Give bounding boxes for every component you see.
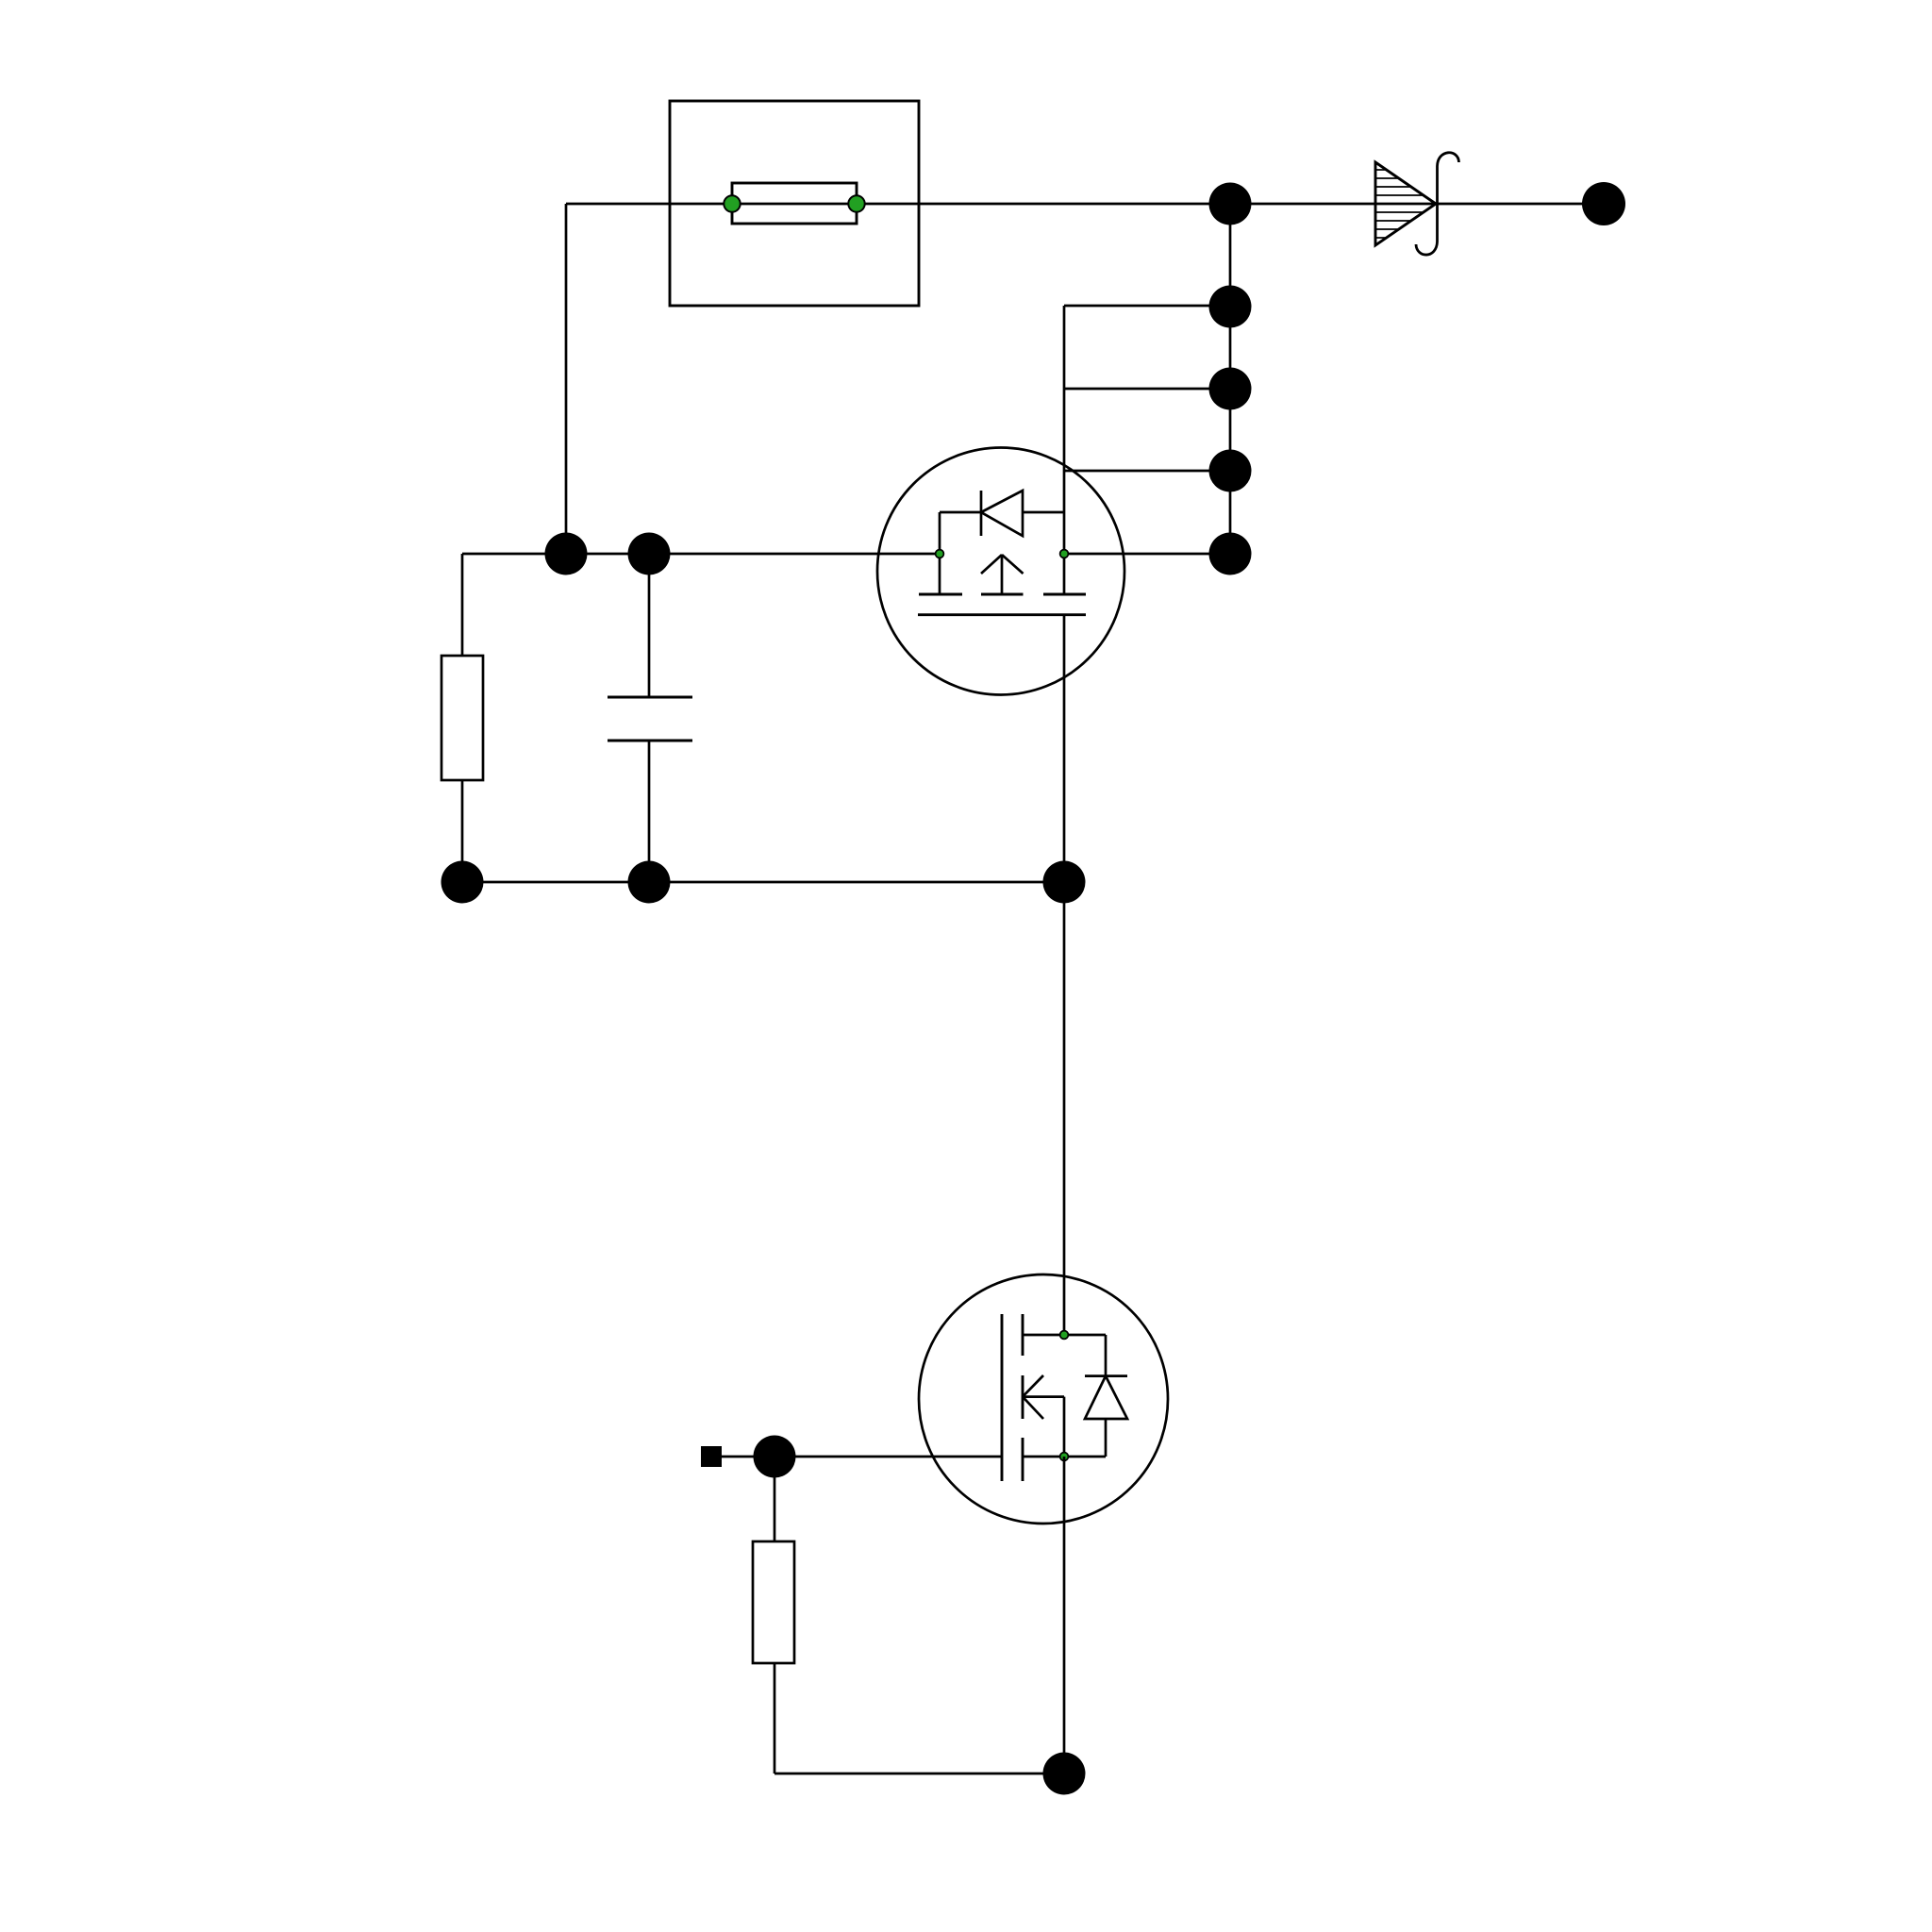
Q2 drain internal horizontal xyxy=(1023,1334,1106,1337)
Q1 channel segment 1 xyxy=(919,593,962,596)
transistor Q1 (P-MOSFET) xyxy=(877,448,1124,695)
fuse F1 pin 2 xyxy=(848,195,864,211)
Q1 gate line xyxy=(918,613,1086,616)
node A1 xyxy=(1209,286,1252,328)
wire mid row horizontal xyxy=(462,553,940,556)
wire Q2 source down to bottom node xyxy=(1063,1457,1066,1774)
Q1 body diode cathode bar xyxy=(980,491,983,536)
wire top horizontal from left corner through fuse to right terminal xyxy=(566,203,1604,206)
wire stub row 3 xyxy=(1064,470,1230,473)
Q1 body diode anode lead xyxy=(1023,511,1064,514)
wire stub row 1 xyxy=(1064,305,1230,308)
wire resistor R2 bottom lead xyxy=(774,1663,776,1774)
Q2 channel segment 1 xyxy=(1022,1314,1024,1356)
fuse F1 pin 1 xyxy=(724,195,740,211)
Q2 body diode cathode lead xyxy=(1105,1335,1108,1376)
enclosure box around fuse xyxy=(670,101,919,306)
Q1 envelope circle xyxy=(877,448,1124,695)
Q2 channel segment 2 xyxy=(1022,1375,1024,1419)
Q2 gate bar xyxy=(1001,1314,1004,1481)
Q1 channel segment 3 xyxy=(1043,593,1086,596)
surge arrester integral-shaped curve xyxy=(1416,153,1459,255)
node bottom xyxy=(1043,1753,1086,1795)
wire resistor R1 bottom lead xyxy=(461,780,464,882)
Q2 envelope circle xyxy=(919,1274,1168,1524)
wire lower-mid row horizontal xyxy=(462,881,1064,884)
capacitor C1 xyxy=(608,697,692,741)
wire left vertical from top corner down to mid row xyxy=(565,204,568,554)
Q1 substrate arrow xyxy=(981,555,1024,594)
Q1 body diode cathode lead xyxy=(940,511,981,514)
Q1 body diode triangle xyxy=(981,491,1023,536)
resistor R1 xyxy=(441,656,483,780)
node B1 xyxy=(441,861,484,904)
junction node at top (fuse output) xyxy=(1209,183,1252,225)
surge arrester / TVS symbol: hatched triangle xyxy=(1375,162,1436,245)
node B2 xyxy=(628,861,671,904)
node B3 xyxy=(1043,861,1086,904)
Q2 body diode anode lead xyxy=(1105,1419,1108,1457)
Q2 substrate arrow xyxy=(1023,1375,1064,1419)
node A2 xyxy=(1209,368,1252,410)
node A4 xyxy=(1209,533,1252,575)
Q2 source internal horizontal xyxy=(1023,1456,1106,1458)
wire stub row 2 xyxy=(1064,388,1230,391)
Q1 pin source xyxy=(936,550,944,558)
square terminal (gate input) xyxy=(701,1446,722,1467)
node A3 xyxy=(1209,450,1252,492)
Q2 pin source xyxy=(1060,1453,1069,1461)
wire vertical column right xyxy=(1229,204,1232,554)
Q1 source internal vertical xyxy=(939,512,941,594)
Q2 pin drain xyxy=(1060,1331,1069,1340)
wire resistor R2 top lead xyxy=(774,1457,776,1541)
terminal node right end xyxy=(1582,182,1625,225)
Q2 body diode triangle xyxy=(1085,1376,1127,1419)
transistor Q2 (N-MOSFET) xyxy=(919,1274,1168,1524)
wire stub row 4 (drain to node) xyxy=(1064,553,1230,556)
Q2 source-to-pin vertical xyxy=(1063,1397,1066,1457)
fuse F1 body xyxy=(732,183,857,224)
wire main vertical bus through Q1 (upper part) xyxy=(1063,306,1066,594)
Q1 channel segment 2 xyxy=(981,593,1024,596)
wire capacitor C1 top lead xyxy=(648,554,651,697)
wire resistor R1 top lead xyxy=(461,554,464,656)
resistor R2 xyxy=(753,1541,794,1663)
Q1 pin drain xyxy=(1060,550,1069,558)
node at x688 mid row xyxy=(628,533,671,575)
wire bottom row horizontal xyxy=(774,1773,1064,1775)
wire main vertical bus through Q1 (lower part) xyxy=(1063,615,1066,1335)
node at x600 mid row xyxy=(545,533,588,575)
wire capacitor C1 bottom lead xyxy=(648,741,651,882)
node gate junction xyxy=(754,1436,796,1478)
Q2 body diode cathode bar xyxy=(1085,1374,1127,1377)
wire gate row xyxy=(722,1456,1001,1458)
Q2 channel segment 3 xyxy=(1022,1438,1024,1481)
